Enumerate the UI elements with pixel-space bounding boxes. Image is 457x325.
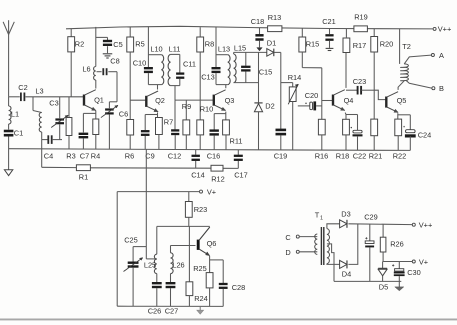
wire C6 to rail1 (108, 115, 110, 149)
inductor L26 (171, 253, 185, 274)
svg-text:R3: R3 (66, 152, 75, 161)
wire C25 bottom lead (132, 268, 134, 307)
svg-text:C25: C25 (124, 236, 138, 245)
wire tank L11 bottom link (171, 85, 180, 87)
svg-text:R14: R14 (288, 73, 302, 82)
resistor R21 (369, 119, 383, 160)
wire tank top link (148, 54, 161, 56)
resistor R16 (315, 119, 329, 160)
inductor L6 (82, 65, 95, 81)
plus mark C22 (351, 127, 352, 128)
wire detector top (234, 51, 267, 53)
wire Q2 base (130, 99, 146, 101)
wire second rail middle segment (90, 167, 211, 169)
svg-text:L1: L1 (11, 110, 19, 119)
svg-text:R24: R24 (194, 294, 208, 303)
svg-text:Q5: Q5 (397, 96, 407, 105)
capacitor C29 electrolytic (364, 213, 378, 282)
wire R3 top lead (68, 97, 70, 118)
svg-text:L25: L25 (144, 261, 156, 270)
inductor L15 (234, 44, 247, 83)
capacitor C26 (148, 283, 162, 315)
wire R21 bottom lead (373, 136, 375, 151)
wire R20 top lead (373, 29, 375, 37)
wire C19 bottom lead (280, 135, 282, 150)
capacitor C8 (103, 56, 119, 75)
capacitor C21 (322, 17, 336, 40)
resistor R18 (336, 119, 350, 160)
svg-text:L6: L6 (82, 65, 90, 74)
node A terminal (404, 51, 444, 64)
svg-text:C23: C23 (353, 77, 367, 86)
wire tank L15 bottom link (234, 82, 259, 84)
wire PSU bottom rail (334, 280, 401, 282)
capacitor C4 (44, 135, 53, 160)
wire second rail left segment (42, 166, 77, 168)
wire C11 bottom lead (179, 79, 181, 86)
wire R4 bottom lead (95, 135, 97, 150)
capacitor C23 (353, 77, 367, 95)
node V+ terminal (200, 188, 217, 197)
variable resistor R14 (288, 73, 302, 105)
diode D2 (254, 102, 274, 112)
resistor R1 (76, 165, 90, 182)
wire Q4 base (322, 100, 334, 102)
capacitor C14 (191, 156, 205, 180)
svg-text:R22: R22 (393, 152, 407, 161)
diode D4 (340, 260, 352, 278)
wire oscillator bottom (117, 305, 223, 307)
transistor Q4 (333, 90, 353, 111)
inductor L10 (150, 45, 163, 85)
wire R7 bottom lead (158, 135, 160, 150)
wire PSU top to V++ (348, 223, 412, 226)
svg-text:R23: R23 (194, 205, 208, 214)
resistor R26 (380, 237, 403, 252)
wire oscillator collector node (157, 225, 210, 227)
wire C10 bottom (147, 73, 149, 85)
svg-text:Q2: Q2 (155, 96, 165, 105)
resistor R5 (127, 37, 145, 52)
capacitor C16 (207, 131, 221, 161)
ground antenna (4, 170, 12, 176)
wire Q6 base to L26 (171, 245, 196, 247)
wire C11 top lead (179, 54, 181, 72)
capacitor C24 (403, 126, 431, 140)
svg-text:C10: C10 (133, 59, 147, 68)
plus mark C20 (305, 103, 307, 105)
wire D to primary (300, 251, 318, 253)
wire tank L11 top link (171, 53, 180, 55)
wire R17 top lead (345, 29, 347, 38)
svg-text:L10: L10 (150, 45, 162, 54)
node C terminal (285, 233, 299, 242)
wire C5 branch (96, 36, 108, 38)
wire second rail right segment (223, 167, 238, 169)
resistor R7 (156, 118, 174, 135)
wire C8 branch (97, 71, 102, 73)
wire C24 branch (398, 114, 411, 116)
svg-text:R20: R20 (380, 40, 394, 49)
svg-text:C12: C12 (168, 152, 182, 161)
wire Q3 emitter (225, 112, 227, 120)
wire C18 arrow (257, 41, 262, 51)
wire C16 bottom lead (213, 136, 215, 150)
resistor R25 (193, 264, 213, 288)
capacitor C5 (103, 40, 123, 49)
wire L6 to rail (95, 27, 97, 67)
capacitor C9 (141, 131, 155, 160)
capacitor C18 lead from rail (259, 28, 261, 35)
svg-text:C18: C18 (251, 17, 265, 26)
wire L3 bottom (41, 132, 43, 140)
wire R15 top lead (301, 28, 303, 37)
wire R8 top lead (199, 27, 201, 37)
wire R23 top lead (188, 192, 190, 202)
trimmer capacitor C25 (124, 236, 143, 272)
svg-text:R11: R11 (229, 137, 242, 146)
wire C28 branch (210, 259, 224, 261)
svg-text:C30: C30 (407, 268, 421, 277)
wire C3 top lead (59, 97, 61, 118)
svg-text:R25: R25 (193, 264, 207, 273)
wire Q4 collector to R17 (345, 53, 347, 88)
wire R5 top lead (129, 27, 131, 37)
wire tank bottom link (148, 84, 161, 86)
wire C24 bottom lead (409, 136, 411, 150)
wire Q4 emitter (344, 113, 347, 120)
wire C15 bottom lead (245, 71, 247, 82)
svg-text:D: D (285, 248, 290, 257)
svg-text:C21: C21 (322, 17, 336, 26)
svg-text:L11: L11 (169, 45, 181, 54)
diode D1 (267, 39, 276, 57)
capacitor C10 (133, 59, 153, 72)
wire D1 to corner (274, 51, 280, 53)
wire Q1 collector to L6 (95, 80, 97, 89)
capacitor C30 electrolytic (392, 262, 421, 282)
resistor R17 (343, 38, 366, 53)
svg-text:Q4: Q4 (344, 96, 354, 105)
wire C26 bottom lead (156, 288, 158, 306)
wire secondary bottom to D4 (327, 263, 340, 266)
wire C12 top lead (174, 100, 176, 129)
capacitor C28 (219, 283, 245, 292)
wire tank L13 bottom link (216, 84, 228, 86)
wire C14 bottom lead (195, 161, 197, 168)
svg-text:R9: R9 (182, 102, 191, 111)
wire R9 bottom lead (185, 135, 187, 150)
wire R14 branch (281, 82, 293, 84)
svg-text:C5: C5 (113, 40, 122, 49)
resistor R20 (371, 37, 393, 53)
svg-text:R6: R6 (125, 152, 134, 161)
wire Q6 emitter (209, 256, 211, 273)
wire C14 top lead (195, 150, 197, 155)
antenna (3, 20, 14, 97)
resistor R8 (197, 37, 214, 52)
resistor R13 (268, 13, 282, 32)
node V+ terminal psu (412, 258, 428, 267)
svg-text:Q3: Q3 (225, 96, 235, 105)
node B terminal (406, 80, 444, 93)
resistor R23 (185, 202, 207, 218)
trimmer capacitor C3 (49, 99, 68, 128)
wire L11 to Q3 base (174, 86, 176, 101)
ground (103, 54, 113, 58)
wire R24 bottom lead (188, 296, 190, 307)
wire R22 bottom lead (397, 136, 399, 151)
transistor Q1 (84, 90, 104, 111)
inductor L11 (168, 45, 180, 86)
wire R20 to R21 (373, 52, 375, 119)
svg-text:R17: R17 (353, 41, 367, 50)
svg-text:C: C (285, 233, 291, 242)
wire C22 branch (346, 114, 358, 116)
wire V+ feed (117, 191, 199, 193)
wire C9 branch (145, 114, 157, 116)
wire R10 bottom lead (199, 135, 201, 150)
svg-text:V+: V+ (207, 188, 216, 197)
svg-text:V+: V+ (419, 258, 428, 267)
wire C19 line (280, 52, 282, 128)
wire L1 to C1 (8, 124, 10, 130)
wire C to primary (300, 236, 318, 238)
wire C25 branch (133, 246, 146, 248)
wire Q5 emitter (397, 113, 399, 119)
wire C7 branch (83, 112, 95, 114)
svg-text:C15: C15 (259, 68, 273, 77)
wire tank to Q2 collector (157, 85, 159, 90)
svg-text:D5: D5 (379, 283, 388, 292)
wire C12 bottom lead (174, 135, 176, 150)
wire C8 to C6 (108, 71, 117, 73)
svg-text:D4: D4 (342, 269, 351, 278)
svg-text:R15: R15 (306, 40, 320, 49)
wire antenna to L1 (8, 97, 10, 106)
wire tank feed line (145, 150, 147, 259)
svg-text:C7: C7 (80, 152, 89, 161)
wire C7 bottom lead (82, 138, 84, 149)
resistor R10 (197, 105, 213, 135)
svg-text:B: B (439, 84, 444, 93)
resistor R6 (125, 120, 134, 161)
svg-text:Q1: Q1 (94, 96, 104, 105)
resistor R12 (211, 165, 225, 183)
resistor R9 (182, 102, 191, 135)
wire R24 line (188, 226, 190, 281)
svg-text:L26: L26 (172, 261, 184, 270)
capacitor C18 (251, 17, 265, 40)
transistor Q2 (146, 91, 165, 112)
svg-text:R1: R1 (79, 173, 88, 182)
ground psu (395, 281, 404, 290)
wire tank L13 line (215, 27, 217, 67)
svg-text:D1: D1 (267, 39, 276, 48)
svg-text:C17: C17 (234, 171, 248, 180)
wire C28 bottom lead (222, 289, 224, 307)
wire R14 bottom to rail1 (292, 102, 294, 151)
svg-text:R4: R4 (91, 152, 100, 161)
wire R6 bottom lead (129, 135, 131, 149)
node D terminal (285, 248, 299, 257)
wire L15 top stub (233, 52, 235, 54)
svg-text:R10: R10 (200, 105, 214, 114)
wire C1 to ground (8, 136, 10, 169)
capacitor C17 (234, 156, 248, 180)
wire down to Q4 base node (321, 68, 323, 120)
svg-text:L15: L15 (234, 44, 246, 53)
diode D3 (340, 210, 351, 228)
transformer T1 (315, 211, 330, 266)
resistor R11 (223, 120, 243, 146)
wire C2 to Q1 base (26, 96, 85, 98)
wire R26 bottom lead (382, 252, 384, 262)
resistor R19 (354, 13, 368, 32)
wire C27 bottom lead (170, 288, 172, 306)
diode D5 zener (378, 262, 388, 292)
transistor Q5 (386, 92, 406, 113)
svg-text:C26: C26 (148, 307, 162, 316)
wire R10 top lead (199, 100, 201, 120)
wire L25 to C26 (156, 274, 158, 283)
wire C5 to ground (107, 46, 109, 53)
wire drop to L25 (156, 226, 158, 254)
svg-text:T2: T2 (402, 42, 411, 51)
svg-text:A: A (439, 51, 444, 60)
wire C23 coupling (346, 89, 357, 91)
wire wiper to C20 (298, 105, 310, 107)
inductor L1 (9, 106, 20, 124)
svg-text:R12: R12 (211, 175, 225, 184)
wire left drop (116, 192, 118, 307)
svg-text:1: 1 (320, 216, 323, 222)
svg-text:V++: V++ (419, 221, 433, 230)
wire D2 line bottom (258, 112, 260, 150)
capacitor C11 (176, 60, 196, 78)
svg-text:C22: C22 (353, 152, 367, 161)
wire Q2 emitter (157, 112, 159, 117)
capacitor C2 (18, 83, 27, 101)
capacitor C1 (4, 129, 23, 138)
ground C21 (326, 41, 334, 51)
svg-text:R2: R2 (75, 40, 84, 49)
wire D2 line top (258, 52, 260, 102)
svg-text:Q6: Q6 (207, 239, 217, 248)
trimmer capacitor C6 (101, 105, 128, 118)
wire L3 drop (32, 97, 34, 111)
wire C23 to junction (361, 89, 374, 91)
resistor R15 (299, 37, 319, 52)
svg-text:C24: C24 (418, 131, 432, 140)
svg-text:D2: D2 (265, 102, 274, 111)
wire tank to Q3 collector (225, 85, 227, 89)
wire secondary top to D3 (327, 224, 340, 229)
svg-text:R19: R19 (354, 13, 368, 22)
wire tank L10 line (147, 26, 149, 67)
svg-text:C29: C29 (364, 213, 378, 222)
node V++ terminal psu (412, 221, 432, 230)
capacitor C15 (241, 67, 272, 77)
wire input node (9, 96, 20, 98)
svg-text:L13: L13 (218, 45, 230, 54)
wire C16 branch (214, 113, 226, 115)
capacitor C19 (274, 130, 288, 161)
svg-text:C20: C20 (305, 91, 319, 100)
ground oscillator (197, 306, 204, 314)
inductor L13 (218, 45, 230, 85)
capacitor C27 (165, 283, 179, 315)
svg-text:R26: R26 (390, 240, 404, 249)
resistor R22 (393, 119, 407, 160)
wire R23 bottom lead (188, 217, 190, 226)
wire R16 bottom lead (321, 135, 323, 150)
wire C3 bottom lead (59, 124, 61, 139)
wire Q5 collector to T2 (398, 81, 404, 90)
svg-text:C6: C6 (119, 109, 128, 118)
wire tank bottom left (42, 139, 48, 141)
svg-text:C27: C27 (165, 307, 179, 316)
wire tank L13 top link (216, 54, 228, 56)
wire R26 top lead (382, 225, 384, 238)
resistor R4 (91, 119, 100, 161)
wire D4 up to output (348, 224, 357, 265)
svg-text:R7: R7 (164, 118, 173, 127)
wire Q1 emitter (95, 111, 97, 120)
wire center tap (327, 244, 334, 282)
wire R8 to base node (199, 52, 201, 100)
capacitor C13 (201, 68, 220, 81)
wire C9 bottom lead (144, 136, 146, 150)
svg-text:C16: C16 (207, 152, 221, 161)
svg-text:C11: C11 (183, 60, 196, 69)
capacitor C21 lead from rail (329, 29, 331, 35)
resistor R24 (186, 282, 208, 303)
svg-text:L3: L3 (35, 87, 43, 96)
transistor Q6 (198, 227, 216, 256)
wire top supply rail (66, 26, 433, 29)
wire V+ line psu (383, 261, 412, 263)
wire R2 to base node (70, 52, 72, 97)
wire R2 top lead (70, 29, 72, 37)
wire L26 to C27 (170, 274, 172, 283)
wire R9 top lead (185, 100, 187, 120)
inductor L3 (35, 87, 43, 133)
wire R15 bottom lead (301, 52, 303, 68)
wire C22 bottom lead (357, 136, 359, 150)
wire tank bottom right (52, 139, 62, 141)
svg-text:C4: C4 (44, 152, 53, 161)
inductor L25 (144, 254, 157, 273)
wire C20 to base line (316, 105, 322, 107)
svg-text:D3: D3 (341, 210, 350, 219)
capacitor C20 (305, 91, 319, 110)
svg-text:C8: C8 (110, 56, 119, 65)
svg-text:R13: R13 (268, 13, 282, 22)
scan artifact bottom band (0, 319, 457, 321)
capacitor C12 (168, 130, 182, 160)
wire down to rail2 (41, 140, 43, 168)
svg-text:C13: C13 (201, 73, 215, 82)
svg-text:C2: C2 (18, 83, 27, 92)
svg-text:V++: V++ (438, 24, 452, 33)
node V++ terminal top right (433, 24, 451, 33)
wire to Q5 base (374, 90, 386, 99)
wire C17 top lead (237, 150, 239, 155)
svg-text:C19: C19 (274, 152, 288, 161)
wire C17 bottom lead (237, 161, 239, 168)
wire R25 bottom lead (209, 288, 211, 306)
